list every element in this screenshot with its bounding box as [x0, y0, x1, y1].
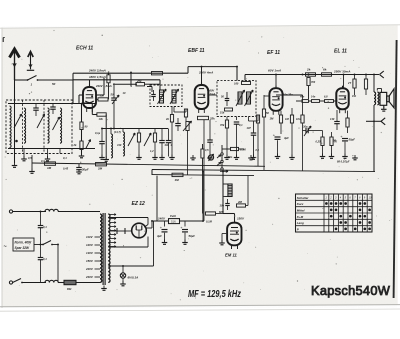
output transformer secondary — [377, 92, 379, 105]
choke mains bottom — [45, 280, 58, 282]
coil L2 — [24, 108, 26, 143]
coil osc padder — [111, 129, 113, 159]
switch mains — [42, 241, 58, 246]
trimmer arrow if1a — [158, 89, 167, 104]
cap mains a — [38, 212, 47, 245]
cap ECH screen — [111, 83, 117, 128]
wire tuner bottom — [8, 148, 95, 150]
wire ef grid — [264, 95, 269, 97]
svg-text:30n: 30n — [220, 204, 225, 208]
label 01u ech — [95, 131, 101, 135]
arrow bus em — [220, 170, 228, 172]
wire if2 sec out — [249, 117, 259, 122]
svg-text:40n: 40n — [299, 96, 305, 99]
svg-text:P: P — [297, 227, 299, 231]
wire mains bottom b — [58, 282, 64, 284]
coil L3 — [48, 108, 50, 143]
wire tuner drop b — [45, 149, 51, 161]
svg-text:51k: 51k — [220, 111, 225, 115]
label ECH11 — [76, 46, 93, 52]
resistor if2 top — [234, 81, 251, 85]
switch contact a — [217, 153, 223, 158]
wire mains top b — [58, 211, 100, 213]
coil if1 secondary — [172, 90, 176, 103]
tuner dashed box — [6, 100, 72, 154]
wire el anode — [343, 75, 345, 88]
tube ECH11 — [83, 85, 96, 113]
svg-text:4µF: 4µF — [156, 234, 162, 238]
tube EF11 — [269, 86, 282, 115]
coil em — [223, 184, 232, 197]
label EZ12 — [132, 201, 146, 207]
wire pilot top — [108, 265, 123, 267]
transformer tap labels — [85, 235, 100, 279]
svg-text:0,1: 0,1 — [43, 225, 47, 229]
label 50n sw — [228, 156, 233, 159]
cap 50uF ez — [180, 221, 195, 244]
cap mains b — [38, 245, 47, 283]
ground left rail — [12, 163, 18, 168]
svg-text:1M: 1M — [175, 178, 180, 182]
svg-text:0,1µ: 0,1µ — [95, 131, 101, 135]
svg-text:60V: 60V — [219, 210, 224, 214]
resistor 150 ech — [96, 94, 108, 101]
label 0317 — [337, 160, 350, 164]
resistor 90 ech — [80, 122, 88, 141]
cap 14n row — [311, 96, 320, 103]
resistor 700 — [307, 78, 316, 100]
ground 10k — [103, 157, 109, 162]
wire bus left join — [151, 170, 153, 176]
svg-text:2k: 2k — [73, 143, 77, 147]
terminal mains bottom — [9, 281, 12, 284]
wire mains top — [13, 211, 46, 213]
label 0,1 tuner — [28, 156, 67, 163]
wire center tap — [108, 221, 153, 266]
bus chassis — [152, 170, 375, 172]
svg-text:EF 11: EF 11 — [267, 50, 280, 56]
resistor ECH screen — [107, 73, 110, 99]
speaker cone — [389, 89, 394, 108]
ground det — [248, 155, 254, 160]
page edge right dark line — [394, 40, 397, 298]
wire right drop — [373, 120, 375, 171]
field coil 516 — [169, 214, 180, 224]
label 1W — [352, 94, 356, 98]
cap c104 — [99, 129, 105, 160]
resistor 05M sw — [222, 147, 246, 151]
coil 310 — [117, 129, 125, 157]
svg-text:88 0,3/7µF: 88 0,3/7µF — [337, 160, 350, 164]
wire ech k column — [82, 103, 87, 122]
wire ef anode — [275, 75, 277, 88]
svg-text:160: 160 — [234, 81, 239, 85]
wire ech g2 — [92, 103, 97, 115]
cap c168 — [166, 129, 173, 157]
svg-text:180V 1,5mA: 180V 1,5mA — [89, 75, 106, 79]
resistor 2k ech — [73, 141, 84, 155]
resistor 1M busgrid — [172, 173, 183, 182]
svg-text:50: 50 — [52, 82, 56, 86]
coil L4 — [60, 108, 62, 143]
ground el a — [352, 155, 358, 160]
resistor r331 — [329, 132, 338, 158]
cap ebf b — [207, 120, 213, 160]
svg-text:Spar 32W: Spar 32W — [15, 246, 31, 250]
choke mains top — [45, 209, 58, 211]
wire ez out b — [180, 220, 204, 222]
svg-text:250V 4mA: 250V 4mA — [198, 70, 213, 74]
wire tuner top — [8, 103, 95, 105]
transformer secondary winding — [108, 214, 110, 282]
svg-text:10n 25n: 10n 25n — [283, 92, 293, 96]
svg-text:107: 107 — [247, 126, 252, 130]
wire em gnd — [222, 234, 226, 243]
svg-text:130: 130 — [330, 117, 335, 121]
svg-text:1,2: 1,2 — [150, 149, 154, 153]
svg-text:120V: 120V — [86, 243, 94, 247]
wire 25k left link — [130, 72, 132, 87]
svg-text:6V/0,3A: 6V/0,3A — [128, 276, 139, 280]
wire em left — [202, 172, 204, 214]
svg-text:EBF 11: EBF 11 — [188, 48, 205, 54]
svg-text:EZ 12: EZ 12 — [132, 201, 146, 207]
trimmer arrow ech — [86, 140, 91, 149]
svg-text:K+M: K+M — [297, 215, 304, 219]
power rating box — [13, 238, 34, 251]
resistor 6k rail3 — [322, 68, 332, 77]
page edge left — [1, 28, 3, 309]
switch contact b — [217, 160, 223, 165]
trimmer arrow if2b — [245, 90, 254, 106]
coil if2 secondary — [247, 92, 251, 104]
svg-text:Norm. 40W: Norm. 40W — [15, 241, 33, 245]
tube EL11 — [336, 86, 348, 114]
cap 30n em — [220, 199, 230, 210]
tube EZ12 — [132, 223, 147, 238]
wire g2 row — [115, 83, 136, 85]
wire left rail — [14, 80, 16, 163]
resistor 68 row — [324, 96, 334, 103]
text Kapsch — [311, 283, 391, 298]
coil if1 primary — [160, 90, 164, 103]
cap el k — [330, 110, 340, 130]
trimmer arrow osc2 — [144, 133, 151, 146]
ground ech k — [79, 153, 85, 158]
svg-text:60V 1mA: 60V 1mA — [268, 68, 282, 72]
svg-text:1M: 1M — [47, 166, 52, 170]
corner mark — [3, 38, 5, 43]
resistor el k — [346, 111, 349, 133]
svg-text:MF = 129,5 kHz: MF = 129,5 kHz — [188, 289, 241, 300]
pot volume knob — [205, 149, 214, 161]
svg-text:50n: 50n — [228, 156, 233, 159]
svg-text:150V: 150V — [237, 216, 245, 220]
cap tuner b — [50, 104, 56, 115]
output transformer primary — [374, 92, 376, 105]
wire tuner drop a — [21, 149, 27, 161]
pot volume — [183, 121, 192, 140]
svg-text:Kurz: Kurz — [297, 202, 304, 206]
transformer primary winding — [100, 214, 102, 282]
wire ebf to if2 — [208, 94, 218, 96]
trimmer arrow if1b — [170, 89, 179, 104]
trimmer arrow if2a — [236, 90, 245, 106]
rail 2 — [73, 75, 160, 88]
terminal mains top — [9, 210, 12, 213]
wire el grid link — [316, 130, 323, 132]
svg-text:893: 893 — [67, 287, 72, 291]
wire b+ to ot — [368, 75, 374, 93]
wire avc left end — [31, 155, 33, 171]
wire ebf k gnd — [169, 129, 175, 159]
resistor ef k — [279, 111, 282, 134]
cap coupling 30n — [303, 124, 317, 136]
pilot lamp — [120, 266, 138, 283]
svg-text:516: 516 — [171, 220, 176, 224]
wire pot down — [187, 140, 189, 175]
page edge bottom — [0, 305, 400, 312]
ground transformer — [101, 286, 107, 291]
bus AVC — [32, 163, 265, 166]
svg-text:0,3: 0,3 — [41, 159, 45, 163]
wire ECH anode — [89, 80, 91, 85]
switch contact c — [221, 168, 223, 170]
rail 1 — [73, 67, 237, 75]
ground pilot — [120, 281, 126, 286]
if1 dashed box — [150, 85, 182, 107]
tube EM11 — [227, 223, 241, 246]
label grid cap — [283, 92, 293, 96]
wire ef out — [276, 94, 303, 96]
if2 dashed box — [217, 81, 256, 117]
wire switch drop — [57, 245, 59, 283]
svg-text:310: 310 — [117, 143, 122, 147]
trimmer arrow T2 — [37, 114, 45, 128]
resistor h 25k — [136, 79, 145, 86]
resistor 2M em — [237, 200, 246, 207]
wire hv bottom — [108, 237, 148, 248]
switch mains bottom — [13, 279, 23, 284]
wire ot bottom — [373, 105, 375, 121]
svg-text:25k: 25k — [136, 79, 142, 83]
resistor if2 b — [220, 108, 233, 115]
wire tuner drop c — [59, 149, 61, 154]
wire em feed — [223, 172, 235, 223]
svg-text:60V: 60V — [210, 89, 215, 93]
cap 50uF — [333, 134, 355, 158]
wire ebf anode — [201, 67, 203, 83]
transformer heater arrows — [110, 214, 117, 248]
rail 3 — [245, 68, 379, 74]
cap det mid — [247, 121, 257, 159]
svg-text:6,8: 6,8 — [324, 96, 328, 99]
resistor ebf grid — [184, 109, 187, 121]
svg-text:50µF: 50µF — [349, 138, 356, 142]
ground 50pF — [76, 169, 82, 174]
resistor ef a — [296, 95, 304, 171]
trimmer arrow ech osc — [112, 95, 119, 104]
label EF11 — [267, 50, 280, 56]
svg-text:0,1: 0,1 — [63, 156, 67, 160]
svg-text:EM 11: EM 11 — [225, 253, 237, 258]
ground em — [219, 240, 225, 245]
wire bus3 to 140V — [156, 176, 158, 221]
resistor r139 — [136, 129, 142, 160]
wire rail2 drop — [244, 75, 246, 81]
ground speaker — [381, 105, 387, 111]
trimmer arrow T1 — [14, 114, 22, 128]
svg-text:Mittel: Mittel — [297, 208, 305, 212]
cap ef k el — [273, 133, 289, 159]
cap 50pF avc — [76, 164, 89, 172]
svg-text:Kapsch540W: Kapsch540W — [311, 283, 391, 298]
wire ez out — [146, 217, 168, 228]
switch S ant — [27, 76, 39, 87]
label EBF11 — [188, 48, 205, 54]
scan speckles — [5, 30, 392, 301]
cap if1 — [151, 90, 156, 101]
resistor 2k rail3 — [306, 68, 316, 77]
cap if2 load — [234, 122, 243, 159]
bus grid — [152, 175, 254, 176]
svg-text:0,45: 0,45 — [63, 167, 69, 171]
cap 40n row — [299, 96, 309, 103]
tube EBF11 — [195, 83, 209, 114]
wire 10k down — [105, 115, 107, 159]
wire comp row top — [102, 128, 168, 130]
svg-text:0,1: 0,1 — [239, 123, 243, 127]
label 60V em — [219, 210, 224, 214]
wire hv top — [108, 218, 148, 228]
terminal C2 fork — [366, 118, 385, 125]
terminal C1 fork — [380, 71, 384, 78]
transformer core — [103, 213, 105, 285]
junction blob — [15, 140, 18, 143]
wire rail1 drop — [236, 67, 238, 81]
label 60V 2mA — [209, 89, 216, 97]
wire ech grid — [79, 95, 83, 104]
label (14,7) — [114, 130, 121, 134]
wire em right — [246, 176, 249, 206]
speaker box — [380, 92, 389, 105]
resistor on b+ drop — [201, 144, 204, 172]
label EL11 — [334, 49, 347, 55]
svg-text:~: ~ — [4, 244, 7, 250]
wire b+ riser — [202, 172, 204, 221]
svg-text:240V: 240V — [85, 275, 94, 279]
resistor ef g2 — [285, 108, 295, 159]
svg-text:250V 30mA: 250V 30mA — [333, 69, 351, 73]
svg-text:Pufd: Pufd — [170, 214, 176, 218]
fuse box — [64, 280, 76, 291]
svg-text:50pF: 50pF — [82, 168, 89, 172]
resistor det a — [256, 115, 259, 166]
svg-text:2M: 2M — [97, 167, 103, 171]
resistor 1M avc — [45, 162, 56, 170]
label 10 ech — [123, 91, 126, 95]
resistor h rail2 — [152, 72, 163, 75]
resistor el grid — [316, 131, 326, 159]
resistor if2 load — [220, 120, 230, 159]
label 1M det — [270, 117, 275, 121]
ground ebf a — [190, 155, 196, 160]
resistor det b — [262, 95, 269, 170]
label 0457 — [63, 167, 69, 171]
sg row wire — [296, 100, 338, 102]
svg-text:EL 11: EL 11 — [334, 49, 347, 55]
wire em legs — [232, 245, 238, 249]
label 0,1 det — [256, 148, 260, 152]
label tilde — [4, 244, 7, 250]
page edge top — [0, 25, 400, 28]
svg-text:0,5: 0,5 — [205, 149, 209, 152]
svg-text:2k: 2k — [165, 117, 169, 121]
tuner dashed divider 2 — [43, 100, 45, 154]
coil L1 — [10, 106, 12, 148]
svg-text:50µF: 50µF — [189, 234, 196, 238]
svg-text:Schalter: Schalter — [297, 196, 310, 200]
wire if2 drops — [227, 117, 237, 121]
wire switch col — [221, 145, 223, 168]
trimmer arrow osc1 — [128, 133, 135, 146]
svg-text:0,5: 0,5 — [28, 156, 32, 160]
wire if1 sec down — [174, 107, 186, 113]
svg-text:700: 700 — [311, 81, 316, 84]
svg-text:70k: 70k — [220, 123, 225, 127]
cap ebf k — [175, 118, 181, 131]
cap 4uF ez — [156, 221, 168, 244]
svg-text:140V: 140V — [158, 217, 166, 221]
wire rating to switch — [34, 244, 43, 246]
cap c162 — [159, 129, 169, 160]
text MF — [188, 289, 241, 300]
svg-text:14n: 14n — [311, 96, 316, 99]
wire ech out — [96, 78, 104, 95]
resistor 10k ech — [97, 113, 106, 121]
svg-text:240V 1,5mA: 240V 1,5mA — [95, 84, 112, 88]
antenna aux — [27, 52, 34, 71]
resistor r155 — [150, 129, 158, 160]
antenna main — [10, 49, 20, 80]
svg-text:130V: 130V — [86, 251, 94, 255]
label 150V — [237, 216, 245, 220]
wire 25k right link — [147, 87, 152, 93]
heater link — [108, 228, 132, 234]
svg-text:30n: 30n — [303, 124, 308, 128]
svg-text:4µF: 4µF — [283, 136, 289, 140]
wire ant to tuner — [38, 80, 74, 86]
resistor r366 — [364, 75, 367, 96]
svg-text:6k: 6k — [323, 68, 327, 72]
label EM11 — [225, 253, 237, 258]
svg-text:220V: 220V — [85, 267, 94, 271]
svg-text:110V: 110V — [86, 235, 94, 239]
svg-text:0,25: 0,25 — [316, 140, 322, 144]
svg-text:2M: 2M — [237, 200, 243, 204]
svg-text:0,1: 0,1 — [256, 148, 260, 152]
svg-text:0,1: 0,1 — [43, 257, 47, 261]
svg-text:150V: 150V — [86, 259, 94, 263]
svg-text:ECH 11: ECH 11 — [76, 46, 93, 52]
svg-text:0,1M: 0,1M — [206, 220, 213, 224]
cap if2 a — [221, 92, 229, 106]
wire diode down — [203, 120, 205, 221]
svg-text:1W: 1W — [352, 94, 356, 98]
svg-text:10n: 10n — [296, 117, 301, 121]
band switch table — [296, 194, 373, 232]
svg-text:10k: 10k — [99, 117, 104, 121]
